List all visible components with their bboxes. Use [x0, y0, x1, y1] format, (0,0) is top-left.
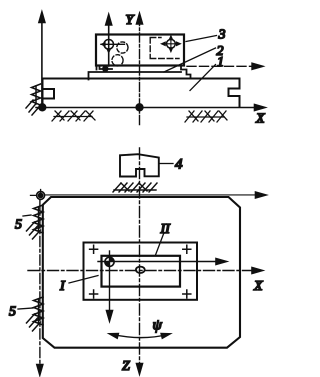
svg-text:Y: Y	[126, 13, 136, 28]
svg-text:4: 4	[175, 157, 183, 173]
svg-text:1: 1	[217, 55, 224, 70]
svg-text:3: 3	[218, 28, 226, 43]
svg-text:5: 5	[9, 305, 16, 320]
svg-text:II: II	[160, 222, 172, 237]
svg-text:ψ: ψ	[153, 318, 163, 334]
svg-text:X: X	[255, 112, 265, 127]
svg-text:I: I	[59, 279, 66, 294]
svg-text:X: X	[253, 279, 263, 294]
svg-text:Z: Z	[122, 359, 130, 374]
svg-text:5: 5	[15, 218, 22, 233]
